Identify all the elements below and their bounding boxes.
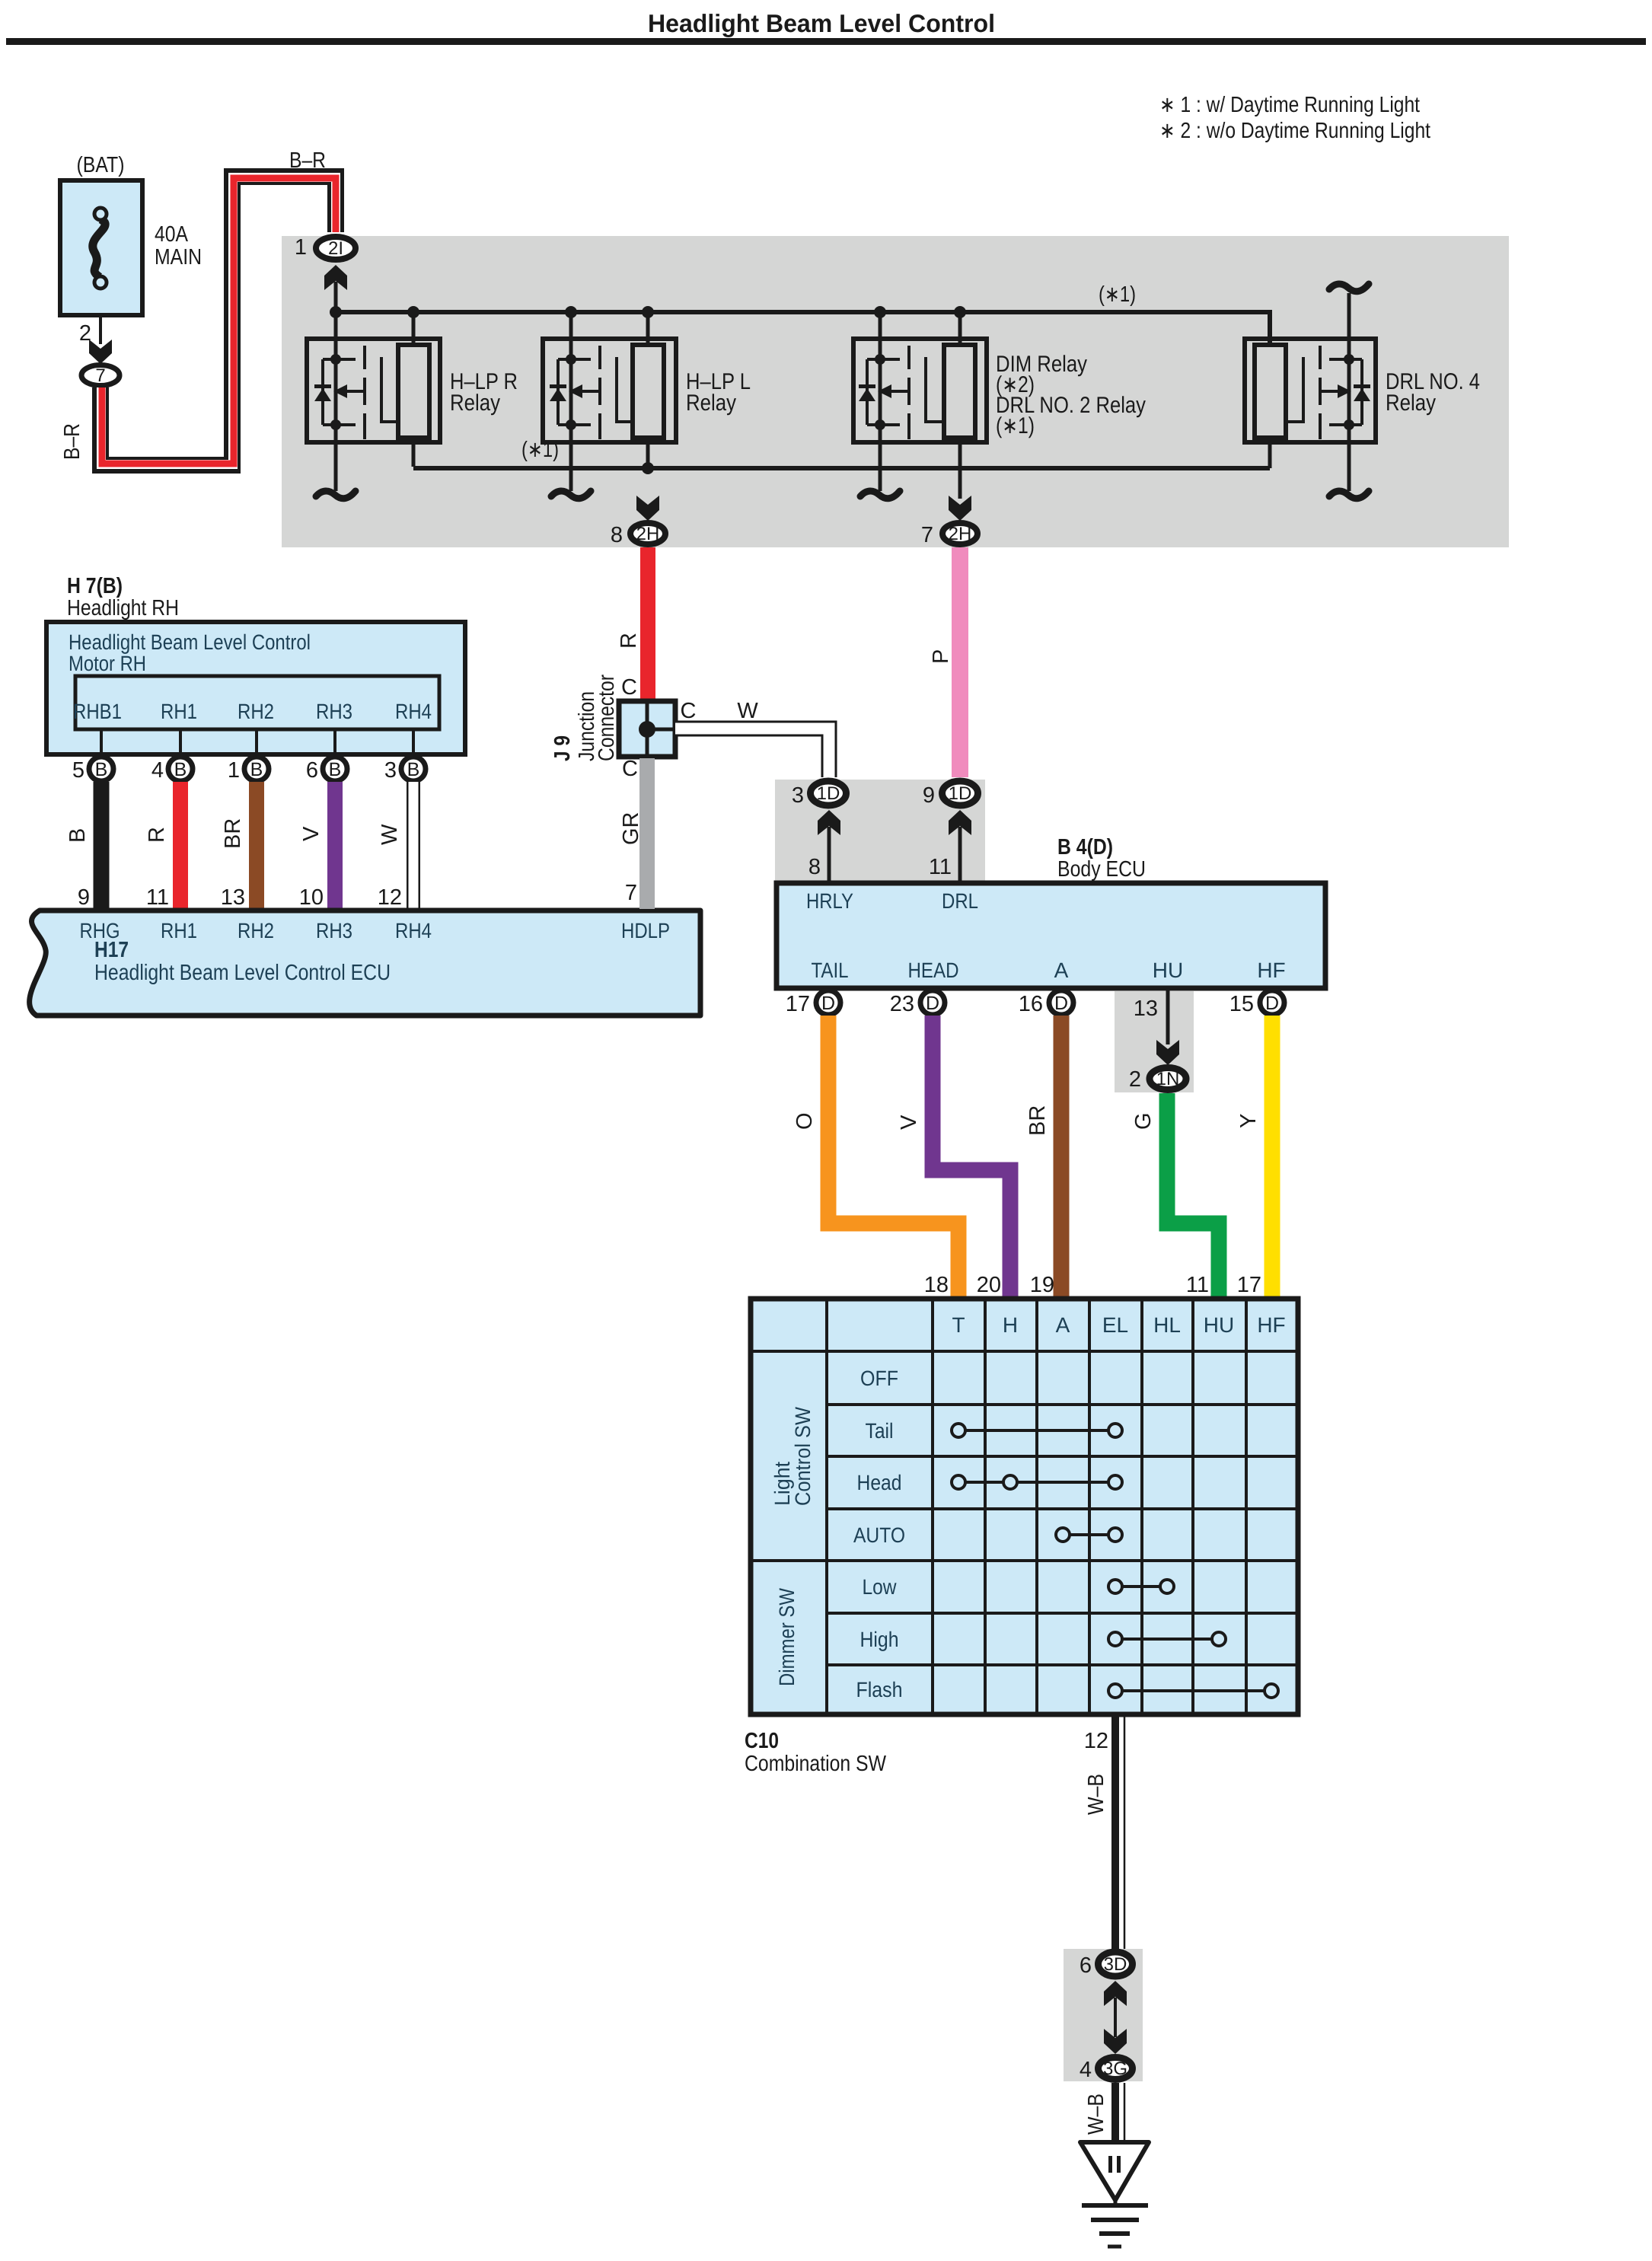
connector arrow down into 2H (pin 8) bbox=[636, 496, 659, 521]
ECU H17 Headlight Beam Level Control ECU box (torn left edge) bbox=[30, 910, 700, 1016]
connector oval 1N bbox=[1150, 1068, 1186, 1090]
svg-text:∗ 1 : w/ Daytime Running Light: ∗ 1 : w/ Daytime Running Light bbox=[1159, 93, 1420, 117]
svg-text:B: B bbox=[329, 759, 342, 780]
svg-text:Headlight Beam Level Control: Headlight Beam Level Control bbox=[648, 9, 995, 37]
svg-text:4: 4 bbox=[1080, 2058, 1092, 2082]
svg-text:16: 16 bbox=[1019, 992, 1043, 1016]
svg-text:A: A bbox=[1054, 958, 1069, 982]
svg-text:3: 3 bbox=[792, 783, 804, 808]
wire V (violet) HEAD to switch bbox=[933, 1016, 1010, 1300]
connector block background (3D/3G) bbox=[1064, 1949, 1143, 2081]
svg-text:RH3: RH3 bbox=[316, 700, 352, 723]
node junction dots on top bus bbox=[330, 306, 966, 318]
svg-text:C: C bbox=[681, 699, 697, 723]
svg-text:2H: 2H bbox=[949, 524, 972, 544]
connector arrow up into 1D (DRL) bbox=[949, 810, 971, 835]
wire: top supply bus bbox=[336, 312, 1270, 346]
svg-text:RH4: RH4 bbox=[395, 700, 432, 723]
svg-text:RH2: RH2 bbox=[238, 919, 274, 942]
svg-text:9: 9 bbox=[78, 885, 90, 910]
svg-text:18: 18 bbox=[924, 1273, 949, 1297]
svg-text:Head: Head bbox=[857, 1471, 902, 1494]
svg-text:B: B bbox=[95, 759, 108, 780]
svg-text:Low: Low bbox=[863, 1575, 898, 1599]
svg-text:V: V bbox=[897, 1115, 921, 1130]
svg-text:17: 17 bbox=[786, 992, 810, 1016]
svg-text:HF: HF bbox=[1257, 1313, 1285, 1337]
connector arrow up into 1D (HRLY) bbox=[818, 810, 840, 835]
svg-text:Dimmer SW: Dimmer SW bbox=[775, 1588, 799, 1686]
svg-text:W–B: W–B bbox=[1084, 1774, 1108, 1815]
svg-text:Connector: Connector bbox=[595, 674, 619, 761]
svg-text:RH2: RH2 bbox=[238, 700, 274, 723]
svg-text:B–R: B–R bbox=[289, 148, 326, 173]
svg-text:T: T bbox=[952, 1313, 965, 1337]
svg-text:HEAD: HEAD bbox=[908, 958, 959, 982]
svg-text:OFF: OFF bbox=[860, 1366, 898, 1390]
wire B (black) RHB1 to ECU bbox=[94, 782, 110, 909]
wire W-B 3G to ground bbox=[1115, 2083, 1124, 2142]
svg-text:4: 4 bbox=[151, 758, 164, 783]
squiggle under DIM relay bbox=[860, 491, 900, 499]
svg-text:RH3: RH3 bbox=[316, 919, 352, 942]
connector arrow down into 3G bbox=[1104, 2029, 1127, 2054]
wire arrow to Body ECU pin 11 bbox=[958, 827, 962, 883]
svg-text:B: B bbox=[250, 759, 263, 780]
connector block background (1D) bbox=[775, 780, 985, 883]
connector arrow down into oval 7 bbox=[89, 340, 112, 364]
svg-text:11: 11 bbox=[1186, 1273, 1209, 1297]
wire V (violet) RH3 to ECU bbox=[327, 782, 343, 909]
svg-text:6: 6 bbox=[306, 758, 318, 783]
wire W (white) RH4 to ECU bbox=[407, 782, 420, 909]
switch contacts: AUTO row bbox=[1056, 1528, 1122, 1542]
relay K1 H-LP R Relay bbox=[307, 314, 440, 491]
switch contacts: High row bbox=[1108, 1632, 1226, 1646]
svg-text:6: 6 bbox=[1080, 1953, 1092, 1978]
switch C10 Combination SW table bbox=[751, 1299, 1298, 1714]
svg-text:Headlight Beam Level Control E: Headlight Beam Level Control ECU bbox=[94, 961, 391, 985]
svg-text:Body ECU: Body ECU bbox=[1057, 857, 1146, 882]
svg-text:MAIN: MAIN bbox=[155, 245, 202, 269]
svg-text:B 4(D): B 4(D) bbox=[1057, 835, 1113, 859]
svg-text:RH4: RH4 bbox=[395, 919, 432, 942]
svg-text:12: 12 bbox=[378, 885, 402, 910]
svg-text:High: High bbox=[860, 1628, 899, 1651]
wire W-B combination SW to 3D (white with black stripe) bbox=[1115, 1714, 1124, 1949]
svg-text:1: 1 bbox=[295, 235, 307, 260]
relay block background bbox=[282, 236, 1509, 547]
svg-text:HL: HL bbox=[1153, 1313, 1181, 1337]
svg-text:AUTO: AUTO bbox=[853, 1523, 905, 1547]
wire P (pink) 2H to 1D bbox=[952, 547, 968, 777]
svg-text:(BAT): (BAT) bbox=[77, 153, 125, 177]
wire Y (yellow) HF to switch bbox=[1265, 1016, 1280, 1300]
svg-text:B: B bbox=[65, 828, 90, 843]
svg-text:19: 19 bbox=[1030, 1273, 1054, 1297]
svg-text:Headlight RH: Headlight RH bbox=[67, 596, 179, 620]
svg-text:C: C bbox=[621, 675, 637, 700]
svg-text:D: D bbox=[1054, 993, 1068, 1014]
svg-text:7: 7 bbox=[95, 365, 105, 386]
connector arrow up from wire into 2I bbox=[324, 265, 347, 290]
svg-text:2H: 2H bbox=[636, 524, 660, 544]
svg-text:H 7(B): H 7(B) bbox=[67, 574, 123, 598]
svg-text:C10: C10 bbox=[745, 1729, 779, 1753]
connector oval 7 bbox=[81, 365, 120, 386]
switch contacts: Flash row bbox=[1108, 1684, 1278, 1698]
svg-text:TAIL: TAIL bbox=[812, 958, 849, 982]
svg-text:HU: HU bbox=[1204, 1313, 1234, 1337]
svg-text:R: R bbox=[617, 633, 641, 649]
relay K2 H-LP L Relay bbox=[543, 314, 676, 491]
svg-text:15: 15 bbox=[1229, 992, 1254, 1016]
svg-text:(∗1): (∗1) bbox=[996, 413, 1035, 438]
connector oval 2H (right) bbox=[942, 523, 977, 544]
svg-text:D: D bbox=[1265, 993, 1279, 1014]
column header labels T H A EL HL HU HF bbox=[952, 1313, 1285, 1337]
svg-text:1: 1 bbox=[228, 758, 240, 783]
squiggle (circuit continues) under H-LP R relay bbox=[316, 491, 356, 499]
svg-text:B–R: B–R bbox=[60, 423, 85, 460]
svg-text:∗ 2 : w/o Daytime Running Ligh: ∗ 2 : w/o Daytime Running Light bbox=[1159, 119, 1430, 143]
svg-text:Flash: Flash bbox=[856, 1678, 903, 1701]
node junction dot in J9 bbox=[639, 721, 655, 738]
title: Headlight Beam Level Control bbox=[6, 9, 1646, 45]
wire R (red) 2H to J9 bbox=[640, 547, 655, 700]
svg-text:1N: 1N bbox=[1156, 1069, 1180, 1089]
wire: bottom bus bbox=[413, 466, 1270, 470]
svg-text:C: C bbox=[622, 757, 638, 781]
connector circles B bbox=[89, 757, 426, 781]
svg-text:8: 8 bbox=[611, 523, 623, 547]
svg-text:40A: 40A bbox=[155, 222, 189, 247]
svg-text:H: H bbox=[1003, 1313, 1018, 1337]
svg-text:8: 8 bbox=[808, 855, 821, 879]
svg-text:10: 10 bbox=[299, 885, 324, 910]
pin stubs motor to connector bbox=[101, 729, 413, 757]
svg-text:Combination SW: Combination SW bbox=[745, 1752, 887, 1776]
svg-text:13: 13 bbox=[221, 885, 245, 910]
connector oval 3D bbox=[1099, 1952, 1133, 1976]
svg-text:20: 20 bbox=[977, 1273, 1001, 1297]
svg-text:EL: EL bbox=[1102, 1313, 1128, 1337]
junction connector J9 box bbox=[619, 701, 675, 757]
svg-text:5: 5 bbox=[72, 758, 85, 783]
svg-text:W–B: W–B bbox=[1084, 2094, 1108, 2135]
svg-text:Y: Y bbox=[1236, 1114, 1261, 1128]
svg-text:Relay: Relay bbox=[686, 391, 736, 416]
squiggle under DRL NO.4 relay bbox=[1329, 491, 1369, 499]
connector block background (1N) bbox=[1115, 991, 1194, 1092]
node junction dot on bottom bus bbox=[642, 462, 654, 474]
svg-text:3G: 3G bbox=[1103, 2058, 1127, 2079]
headlight RH box bbox=[46, 622, 465, 754]
svg-text:7: 7 bbox=[921, 523, 933, 547]
svg-text:RH1: RH1 bbox=[161, 700, 197, 723]
switch contacts: Low row bbox=[1108, 1580, 1174, 1593]
switch contacts: Head row bbox=[952, 1475, 1122, 1489]
row labels OFF Tail Head AUTO Low High Flash bbox=[853, 1366, 905, 1701]
svg-text:Relay: Relay bbox=[450, 391, 500, 416]
svg-text:Relay: Relay bbox=[1386, 391, 1436, 416]
ground symbol II (body ground) bbox=[1080, 2142, 1149, 2247]
motor M1 inner box bbox=[75, 676, 439, 729]
svg-text:2I: 2I bbox=[328, 238, 343, 259]
pin numbers 5 4 1 6 3 bbox=[72, 758, 397, 783]
svg-text:Motor RH: Motor RH bbox=[69, 652, 146, 675]
switch contacts: Tail row bbox=[952, 1424, 1122, 1437]
svg-text:B: B bbox=[407, 759, 420, 780]
svg-text:RH1: RH1 bbox=[161, 919, 197, 942]
connector oval 3G bbox=[1099, 2058, 1133, 2080]
relay K3 DIM Relay / DRL NO. 2 Relay bbox=[853, 314, 987, 499]
wire 2I to bus bbox=[334, 282, 338, 312]
svg-text:R: R bbox=[145, 827, 169, 843]
connector arrow down into 2H (pin 7) bbox=[949, 496, 971, 521]
svg-text:G: G bbox=[1131, 1112, 1156, 1130]
svg-text:(∗1): (∗1) bbox=[1099, 282, 1136, 307]
squiggle under H-LP L relay bbox=[551, 491, 591, 499]
wire O (orange) TAIL to switch bbox=[828, 1016, 958, 1300]
svg-text:J 9: J 9 bbox=[550, 735, 575, 761]
svg-text:23: 23 bbox=[890, 992, 914, 1016]
svg-text:D: D bbox=[821, 993, 835, 1014]
svg-text:V: V bbox=[299, 826, 324, 841]
svg-text:11: 11 bbox=[146, 885, 169, 910]
svg-text:7: 7 bbox=[625, 881, 637, 905]
squiggle above DRL NO.4 relay bbox=[1329, 284, 1369, 292]
svg-text:3: 3 bbox=[384, 758, 397, 783]
switch pin numbers 18 20 19 11 17 bbox=[924, 1273, 1261, 1297]
wire W (white) J9 to 1D: double line bbox=[675, 722, 836, 777]
svg-text:DRL: DRL bbox=[942, 889, 978, 913]
wire BR (brown) A to switch bbox=[1054, 1016, 1070, 1300]
wire BR (brown) RH2 to ECU bbox=[249, 782, 264, 909]
wire R (red) RH1 to ECU bbox=[173, 782, 188, 909]
svg-text:W: W bbox=[378, 824, 402, 845]
wire between 3D and 3G bbox=[1114, 1998, 1117, 2037]
svg-text:B: B bbox=[174, 759, 187, 780]
svg-text:Tail: Tail bbox=[866, 1419, 894, 1443]
svg-text:RHB1: RHB1 bbox=[73, 700, 122, 723]
wire GR (gray) J9 to ECU HDLP bbox=[639, 758, 655, 909]
connector oval 2I bbox=[316, 237, 356, 260]
connector oval 2H (left) bbox=[630, 523, 665, 544]
svg-text:HDLP: HDLP bbox=[621, 919, 670, 942]
connector oval 1D (DRL) bbox=[942, 781, 978, 805]
wire: fuse to connector arrow bbox=[99, 315, 102, 344]
fuse box 40A MAIN (fusible link holder) bbox=[60, 180, 142, 315]
svg-text:1D: 1D bbox=[817, 783, 840, 804]
connector arrow down into 1N bbox=[1156, 1040, 1179, 1065]
svg-text:Headlight Beam Level Control: Headlight Beam Level Control bbox=[69, 630, 311, 654]
svg-text:A: A bbox=[1056, 1313, 1070, 1337]
svg-text:H17: H17 bbox=[94, 938, 129, 962]
wire arrow to Body ECU pin 8 bbox=[828, 827, 831, 883]
svg-text:HU: HU bbox=[1153, 958, 1183, 982]
svg-text:HRLY: HRLY bbox=[806, 889, 853, 913]
svg-text:W: W bbox=[737, 699, 758, 723]
svg-text:13: 13 bbox=[1134, 997, 1158, 1021]
svg-text:GR: GR bbox=[619, 812, 643, 846]
svg-text:HF: HF bbox=[1257, 958, 1285, 982]
svg-text:11: 11 bbox=[929, 855, 952, 879]
pin numbers 9 11 13 10 12 bbox=[78, 885, 402, 910]
svg-text:17: 17 bbox=[1237, 1273, 1261, 1297]
ECU B4 Body ECU box bbox=[777, 883, 1325, 988]
wire G (green) 1N to switch bbox=[1167, 1093, 1219, 1300]
connector oval 1D (HRLY) bbox=[811, 781, 847, 805]
svg-text:9: 9 bbox=[923, 783, 935, 808]
svg-text:BR: BR bbox=[1025, 1105, 1050, 1136]
svg-text:1D: 1D bbox=[949, 783, 972, 804]
svg-text:2: 2 bbox=[1129, 1067, 1141, 1092]
svg-text:BR: BR bbox=[221, 818, 245, 849]
svg-text:12: 12 bbox=[1084, 1729, 1108, 1753]
wire B-R from oval 7 to relay block (black with red stripe) bbox=[100, 177, 336, 465]
svg-text:3D: 3D bbox=[1104, 1954, 1127, 1975]
fuse F1 40A MAIN symbol bbox=[93, 208, 107, 289]
svg-text:D: D bbox=[926, 993, 939, 1014]
relay K4 DRL NO. 4 Relay (mirrored) bbox=[1245, 293, 1376, 491]
svg-text:P: P bbox=[929, 649, 953, 664]
connector arrow up into 3D bbox=[1104, 1981, 1127, 2006]
svg-text:O: O bbox=[793, 1112, 817, 1130]
wire HU pin 13 to 1N bbox=[1166, 988, 1170, 1044]
